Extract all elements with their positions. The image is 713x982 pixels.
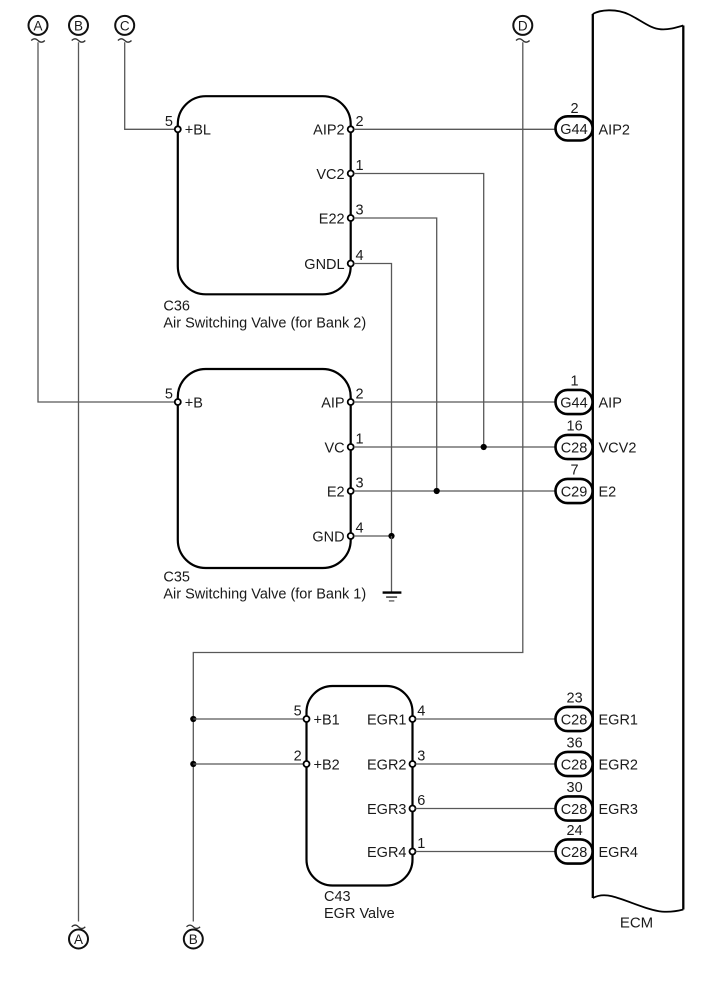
ECM terminal C28 pin 36 EGR2 xyxy=(556,736,639,776)
pin 3 EGR2 of C43 xyxy=(367,749,425,774)
ECM terminal C28 pin 16 VCV2 xyxy=(556,419,637,459)
ECM terminal G44 pin 1 AIP xyxy=(556,374,622,414)
svg-text:D: D xyxy=(518,18,528,33)
wire E2 from C35 to ECM C29 xyxy=(354,490,556,492)
svg-text:C28: C28 xyxy=(561,757,588,773)
svg-text:+B2: +B2 xyxy=(314,757,340,773)
svg-text:C: C xyxy=(120,18,130,33)
svg-text:C28: C28 xyxy=(561,802,588,818)
pin 5 +BL of C36 xyxy=(165,114,211,139)
svg-text:24: 24 xyxy=(567,823,583,839)
wire EGR3 to ECM xyxy=(416,808,556,810)
pin 3 E22 of C36 xyxy=(319,203,364,228)
wire from A down then right to C35 +B pin xyxy=(38,42,175,402)
svg-text:+BL: +BL xyxy=(185,123,211,139)
svg-text:5: 5 xyxy=(165,387,173,403)
svg-text:C29: C29 xyxy=(561,484,588,500)
pin 4 GNDL of C36 xyxy=(304,248,363,273)
wire E22 from C36 down to E2 node xyxy=(354,218,437,491)
svg-text:C36: C36 xyxy=(163,299,190,315)
junction node +B2 branch xyxy=(190,761,196,767)
svg-text:ECM: ECM xyxy=(620,915,653,932)
svg-text:GND: GND xyxy=(312,529,344,545)
pin 5 +B of C35 xyxy=(165,387,203,412)
svg-text:EGR1: EGR1 xyxy=(599,712,639,728)
connector circle A (bottom) xyxy=(69,925,88,948)
pin 4 EGR1 of C43 xyxy=(367,704,425,729)
svg-text:3: 3 xyxy=(417,749,425,765)
svg-text:36: 36 xyxy=(567,736,583,752)
svg-text:5: 5 xyxy=(165,114,173,130)
svg-text:1: 1 xyxy=(356,158,364,174)
wire AIP from C35 to ECM G44 xyxy=(354,401,556,403)
wire GNDL from C36 down to GND node xyxy=(354,264,392,537)
svg-text:2: 2 xyxy=(571,101,579,117)
wire to +B2 xyxy=(193,763,303,765)
svg-text:E2: E2 xyxy=(599,484,617,500)
pin 3 E2 of C35 xyxy=(327,476,364,501)
svg-text:1: 1 xyxy=(417,836,425,852)
svg-text:EGR2: EGR2 xyxy=(599,757,639,773)
svg-text:1: 1 xyxy=(571,374,579,390)
svg-text:C28: C28 xyxy=(561,845,588,861)
svg-text:C28: C28 xyxy=(561,440,588,456)
svg-text:C28: C28 xyxy=(561,712,588,728)
svg-text:EGR4: EGR4 xyxy=(599,845,639,861)
svg-text:C35: C35 xyxy=(163,570,190,586)
svg-text:4: 4 xyxy=(356,248,364,264)
svg-text:EGR2: EGR2 xyxy=(367,757,407,773)
wire GND from C35 to ground xyxy=(354,535,392,537)
connector circle B (bottom) xyxy=(184,925,203,948)
svg-text:AIP2: AIP2 xyxy=(599,123,630,139)
svg-text:B: B xyxy=(74,18,83,33)
wire from C down then right to C36 +BL pin xyxy=(125,42,175,129)
svg-text:2: 2 xyxy=(356,387,364,403)
svg-text:2: 2 xyxy=(356,114,364,130)
ground xyxy=(383,593,402,601)
pin 6 EGR3 of C43 xyxy=(367,793,425,818)
svg-text:4: 4 xyxy=(417,704,425,720)
svg-text:+B: +B xyxy=(185,395,203,411)
svg-text:G44: G44 xyxy=(560,122,587,138)
svg-text:EGR1: EGR1 xyxy=(367,712,407,728)
svg-text:AIP: AIP xyxy=(599,395,622,411)
svg-text:30: 30 xyxy=(567,780,583,796)
block C43 EGR Valve xyxy=(307,686,413,886)
pin 5 +B1 of C43 xyxy=(294,704,340,729)
ECM terminal C28 pin 24 EGR4 xyxy=(556,823,639,863)
block C35 Air Switching Valve (for Bank 1) xyxy=(178,369,351,568)
pin 1 VC2 of C36 xyxy=(316,158,363,183)
ECM terminal C28 pin 23 EGR1 xyxy=(556,691,639,731)
svg-text:3: 3 xyxy=(356,476,364,492)
svg-text:AIP2: AIP2 xyxy=(313,123,344,139)
junction node GNDL/GND xyxy=(388,533,394,539)
svg-text:VC: VC xyxy=(324,440,344,456)
svg-text:EGR3: EGR3 xyxy=(599,802,639,818)
svg-text:6: 6 xyxy=(417,793,425,809)
svg-text:2: 2 xyxy=(294,749,302,765)
ECM terminal G44 pin 2 AIP2 xyxy=(556,101,630,141)
connector circle B (top) xyxy=(69,16,88,42)
svg-text:B: B xyxy=(189,932,198,947)
svg-text:A: A xyxy=(74,932,83,947)
ECM body xyxy=(593,10,684,911)
wire from B down to bottom connector A xyxy=(78,42,80,921)
svg-text:VC2: VC2 xyxy=(316,167,344,183)
wire AIP2 from C36 to ECM G44 xyxy=(354,128,556,130)
svg-text:VCV2: VCV2 xyxy=(599,440,637,456)
connector circle D (top) xyxy=(513,16,532,42)
svg-text:E22: E22 xyxy=(319,211,345,227)
junction node E22/E2 xyxy=(434,488,440,494)
wire VC from C35 to ECM C28 xyxy=(354,446,556,448)
wire EGR2 to ECM xyxy=(416,763,556,765)
svg-text:Air Switching Valve (for Bank: Air Switching Valve (for Bank 2) xyxy=(163,316,366,332)
connector circle C (top) xyxy=(115,16,134,42)
svg-text:Air Switching Valve (for Bank: Air Switching Valve (for Bank 1) xyxy=(163,587,366,603)
svg-text:4: 4 xyxy=(356,521,364,537)
svg-text:EGR Valve: EGR Valve xyxy=(324,906,395,922)
junction node VC2/VC xyxy=(481,444,487,450)
wire from D down, left, down to bottom connector B xyxy=(193,42,523,921)
svg-text:E2: E2 xyxy=(327,484,345,500)
block C36 Air Switching Valve (for Bank 2) xyxy=(178,96,351,294)
svg-text:23: 23 xyxy=(567,691,583,707)
wire EGR1 to ECM xyxy=(416,718,556,720)
svg-text:5: 5 xyxy=(294,704,302,720)
svg-text:AIP: AIP xyxy=(321,395,344,411)
pin 1 EGR4 of C43 xyxy=(367,836,425,861)
svg-text:A: A xyxy=(33,18,42,33)
ECM terminal C28 pin 30 EGR3 xyxy=(556,780,639,820)
svg-text:G44: G44 xyxy=(560,395,587,411)
svg-text:3: 3 xyxy=(356,203,364,219)
pin 2 +B2 of C43 xyxy=(294,749,340,774)
junction node +B1 branch xyxy=(190,716,196,722)
pin 4 GND of C35 xyxy=(312,521,363,546)
pin 1 VC of C35 xyxy=(324,432,363,457)
svg-text:7: 7 xyxy=(571,463,579,479)
connector circle A (top) xyxy=(29,16,48,42)
wire EGR4 to ECM xyxy=(416,851,556,853)
pin 2 AIP2 of C36 xyxy=(313,114,363,139)
svg-text:+B1: +B1 xyxy=(314,712,340,728)
svg-text:C43: C43 xyxy=(324,889,351,905)
pin 2 AIP of C35 xyxy=(321,387,363,412)
wire to +B1 xyxy=(193,718,303,720)
svg-text:1: 1 xyxy=(356,432,364,448)
svg-text:EGR4: EGR4 xyxy=(367,845,407,861)
svg-text:EGR3: EGR3 xyxy=(367,802,407,818)
svg-text:16: 16 xyxy=(567,419,583,435)
wire VC2 from C36 down to VC node xyxy=(354,174,484,448)
svg-text:GNDL: GNDL xyxy=(304,257,344,273)
ECM terminal C29 pin 7 E2 xyxy=(556,463,617,503)
wire from GND node down to ground xyxy=(391,536,393,592)
